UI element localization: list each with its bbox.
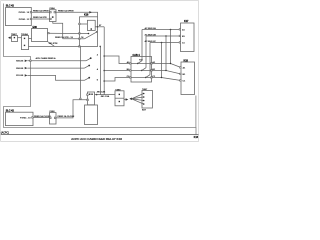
pin 11 tick bbox=[30, 18, 31, 19]
wire relay contact output vertical bbox=[100, 47, 102, 95]
svg-text:(ACPC): (ACPC) bbox=[1, 131, 9, 134]
svg-text:FEED 1A STR: FEED 1A STR bbox=[33, 16, 47, 19]
svg-text:P2T41 - 12: P2T41 - 12 bbox=[19, 11, 30, 14]
splice tap B bbox=[85, 66, 90, 69]
wire relay left vertical (x80.5 down) bbox=[80, 47, 82, 100]
junction box lower (empty) bbox=[85, 105, 98, 125]
wire CAB4 rowC to bus drop bbox=[152, 77, 162, 79]
svg-text:AC BUS 2C: AC BUS 2C bbox=[145, 40, 157, 43]
title separator bbox=[1, 134, 199, 136]
coil right wire out pin 87 bbox=[95, 26, 104, 28]
harness fan to T4B7 bbox=[132, 94, 144, 105]
svg-text:JB1 C2B: JB1 C2B bbox=[97, 92, 106, 94]
wire feed C with step bbox=[27, 75, 84, 80]
wire AC BUS 2C bbox=[150, 42, 181, 44]
svg-text:JB1 C2A: JB1 C2A bbox=[101, 95, 110, 98]
wire T2UB4 to E38 bbox=[29, 38, 32, 40]
wire FEED 1A OPEN (SLC42 to F2E4) bbox=[32, 11, 50, 13]
svg-text:K18: K18 bbox=[194, 137, 199, 139]
breaker row A bbox=[130, 63, 131, 64]
svg-text:FEED 1A CLOSE: FEED 1A CLOSE bbox=[34, 115, 51, 118]
wire AC BUS 2A bbox=[142, 29, 181, 31]
svg-text:AC BUS 2B: AC BUS 2B bbox=[145, 33, 157, 36]
wire FEED 1A STR - 74 bbox=[63, 38, 80, 40]
bottom pin junction bbox=[99, 46, 101, 48]
svg-text:X31 2/6: X31 2/6 bbox=[16, 75, 24, 77]
branch to CAB4 row3 bbox=[103, 80, 105, 82]
wire FEED 1A OPEN (F2E4 to relay) bbox=[56, 12, 98, 16]
drop to K18 pin 2 bbox=[165, 35, 167, 37]
svg-text:X06 2/5: X06 2/5 bbox=[16, 61, 24, 63]
fuse JB1 C2B bbox=[88, 92, 95, 105]
wire fuse right to T4B9 bbox=[95, 94, 116, 96]
svg-text:SLC 42: SLC 42 bbox=[6, 4, 15, 7]
AC BUS verticals from rows bbox=[141, 30, 143, 61]
svg-text:FEED 1A CLOSE: FEED 1A CLOSE bbox=[58, 115, 75, 118]
wire FEED 1A CLOSE right bbox=[56, 100, 88, 118]
wire TMB7 to T2UB4 bbox=[18, 37, 22, 39]
svg-text:ACPC ACC CABIN FEED RELAY K18: ACPC ACC CABIN FEED RELAY K18 bbox=[71, 137, 122, 141]
common pin wire bbox=[80, 38, 85, 40]
ACPC boundary bbox=[4, 4, 197, 135]
svg-text:P2T41 - 11: P2T41 - 11 bbox=[19, 18, 30, 21]
page border bbox=[1, 1, 199, 142]
ACPC boundary right segment bbox=[195, 96, 197, 128]
wire ACU CABIN FEED A bbox=[27, 60, 86, 62]
svg-text:P2T41 - 10: P2T41 - 10 bbox=[20, 117, 31, 120]
svg-text:ACU CABIN FEED A: ACU CABIN FEED A bbox=[36, 57, 56, 60]
svg-text:FEED 1A STR - 74: FEED 1A STR - 74 bbox=[55, 36, 74, 39]
drop to K18 pin 3 bbox=[161, 42, 163, 44]
arrow on FEED 1A OPEN wire bbox=[89, 11, 92, 13]
contact 87a wire bbox=[80, 33, 89, 35]
svg-text:FEED 1A OPEN: FEED 1A OPEN bbox=[58, 10, 74, 13]
wire FEED 1A CLOSE left bbox=[33, 117, 49, 119]
wire T2UB4 lower to JB1 RTN rail bbox=[29, 45, 80, 47]
wire FEED 1A STR (SLC42 to F2E4) bbox=[32, 18, 50, 20]
E38 diagonal to JB1 RTN bbox=[48, 42, 55, 47]
wire CAB4 rowA to bus drop bbox=[152, 63, 171, 65]
E38 right pin wire bbox=[48, 32, 80, 34]
relay coil bbox=[87, 20, 95, 30]
wire feed B bbox=[27, 67, 84, 69]
breaker row B bbox=[130, 70, 131, 71]
wire relay coil output vertical bbox=[103, 27, 105, 95]
branch to CAB4 row2 bbox=[103, 70, 105, 72]
wire AC BUS 2B bbox=[146, 35, 181, 37]
contact dot NC bbox=[96, 31, 98, 33]
splice tap A bbox=[86, 58, 91, 61]
svg-text:JB1 RTN: JB1 RTN bbox=[49, 43, 58, 45]
wire fuse lower output to FEED 1A STR bbox=[53, 22, 63, 39]
svg-text:FEED 1A OPEN: FEED 1A OPEN bbox=[33, 10, 49, 13]
svg-text:K18: K18 bbox=[84, 14, 89, 17]
connector arrow (left of TMB7) bbox=[8, 36, 11, 39]
wire T4B9 out to arrow bbox=[124, 99, 126, 101]
coil left wire bbox=[80, 23, 88, 25]
switch arm bbox=[85, 32, 97, 39]
pin 12 tick bbox=[30, 12, 31, 13]
svg-text:X06 2/6: X06 2/6 bbox=[16, 68, 24, 70]
drop to K18 pin 1 bbox=[170, 29, 172, 31]
svg-text:AC BUS 2A: AC BUS 2A bbox=[145, 27, 157, 30]
wire CAB4 rowB to bus drop bbox=[152, 70, 167, 72]
splice tap C bbox=[85, 78, 90, 81]
breaker row C bbox=[130, 77, 131, 78]
branch to CAB4 row1 bbox=[103, 55, 105, 57]
